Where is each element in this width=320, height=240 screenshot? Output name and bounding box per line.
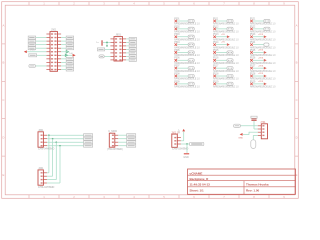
wire +5V vertical [183,131,185,140]
page border frame [2,2,299,200]
J601 pin 7 (right) [123,59,127,61]
J501 pin 6 (right) [58,51,62,53]
global label J302 label 4 [127,144,136,147]
J501 pin 4 (left) [46,44,50,46]
no-connect [175,43,178,46]
global label J302 label 3 [127,141,136,144]
power symbol P529 [264,82,267,85]
J301 pin 3 [43,141,47,143]
J501 pin 5 (left) [46,47,50,49]
J501 pin 5 (right) [58,47,62,49]
wire from J302 pin 3 [118,141,126,143]
wire bus1 vertical [48,135,50,173]
junction at GND drop [186,143,188,145]
no-connect [250,51,253,54]
J601 pin 7 (left) [110,59,114,61]
J501 pin 2 (right) [58,37,62,39]
J501 pin 11 (left) [46,69,50,71]
svg-text:E: E [2,173,4,177]
solder jumper P517 [227,67,233,70]
wire C701 to J701 [253,121,255,129]
global label bus label 3 [84,141,93,144]
solder jumper P521 [264,19,270,22]
svg-text:C: C [296,98,298,102]
wire P529 [253,83,264,85]
wire to J501 left row10 [36,65,47,67]
wire from J501 right [61,65,66,67]
wire P504 [177,44,188,46]
wire P502 [177,28,188,30]
junction bus3 [55,141,57,143]
connector J701 body [261,124,267,139]
J501 pin 2 (left) [46,37,50,39]
J101 pin 2 [177,140,181,142]
svg-text:HARDWARIO/BODULE 1.0: HARDWARIO/BODULE 1.0 [174,22,200,26]
junction at J601 pin3 [106,45,108,47]
J601 pin 1 (right) [123,38,127,40]
global label J601-L6 [99,55,104,58]
J501 pin 3 (left) [46,40,50,42]
svg-text:HARDWARIO/BODULE 1.0: HARDWARIO/BODULE 1.0 [213,22,239,26]
global label bus label 4 [84,144,93,147]
global label J601-R7 [129,58,136,61]
no-connect [213,51,216,54]
no-connect [175,51,178,54]
svg-text:HARDWARIO/BODULE 1.0: HARDWARIO/BODULE 1.0 [174,85,200,89]
J501 pin 7 (right) [58,54,62,56]
global label J601-R2 [129,41,136,44]
global label J501-L4 [28,43,35,46]
no-connect [213,59,216,62]
global label J501-L7 [29,54,37,57]
global label J601-L4 [97,48,104,51]
wire P526 [253,59,264,61]
J401 pin 4 [43,182,47,184]
svg-text:HARDWARIO/BODULE 1.0: HARDWARIO/BODULE 1.0 [213,77,239,81]
power symbol TXD arrow [73,54,76,57]
wire F701 to J701 [252,135,254,139]
J601 pin 6 (left) [110,55,114,57]
wire to J601 pin2 [103,41,110,43]
J501 pin 9 (left) [46,61,50,63]
wire from J601 right [126,38,129,40]
no-connect [213,43,216,46]
J601 pin 4 (right) [123,48,127,50]
J501 pin 10 (right) [58,65,62,67]
global label J501-R10 [66,64,73,67]
wire P527 [253,67,264,69]
J601 pin 1 (left) [110,38,114,40]
wire bus2 horizontal [47,138,84,140]
global label J302 label 1 [127,134,136,137]
svg-text:A: A [2,23,4,27]
wire from J501 right [61,61,66,63]
wire bus2 into J401 [47,175,53,177]
connector J501 body [50,32,58,72]
wire P518 [216,75,227,77]
solder jumper P522 [264,27,270,30]
J301 pin 4 [43,145,47,147]
wire P507 [177,67,188,69]
svg-text:J501: J501 [51,29,57,32]
power symbol GND bar [184,153,189,155]
wire from J501 right [61,69,66,71]
wire P503 [177,36,188,38]
svg-text:B: B [296,61,298,65]
svg-text:J301: J301 [38,129,44,132]
wire bus1 into J401 [47,172,49,174]
power symbol +5V arrow [182,129,185,132]
svg-text:HARDWARIO/BODULE 1.0: HARDWARIO/BODULE 1.0 [213,45,239,49]
svg-text:HARDWARIO/BODULE 1.0: HARDWARIO/BODULE 1.0 [174,77,200,81]
wire to J501 left row7 [37,54,47,56]
svg-text:(HW-04HSMD): (HW-04HSMD) [107,149,123,151]
wire from J501 right [61,40,66,42]
svg-text:HARDWARIO/BODULE 1.0: HARDWARIO/BODULE 1.0 [213,53,239,57]
global label bus label 1 [84,134,93,137]
J501 pin 6 (left) [46,51,50,53]
global label J501-R9 [66,61,73,64]
no-connect [175,67,178,70]
svg-text:C_MOD: C_MOD [108,130,117,133]
svg-text:1u: 1u [96,42,99,44]
wire to J601 pin4 [105,48,111,50]
no-connect [175,59,178,62]
global label J501-R2 [66,36,73,39]
svg-text:HARDWARIO/BODULE 1.0: HARDWARIO/BODULE 1.0 [213,30,239,34]
svg-text:HARDWARIO/BODULE 1.0: HARDWARIO/BODULE 1.0 [213,85,239,89]
wire C701 branch [254,128,258,130]
J302 pin 3 [115,141,119,143]
no-connect [175,28,178,31]
wire P522 [253,28,264,30]
svg-text:VCC: VCC [30,49,35,51]
power symbol P513 [227,35,230,38]
J401 pin 2 [43,175,47,177]
svg-text:CHS-04HSMD: CHS-04HSMD [38,147,54,150]
hierarchical label TXD [65,54,67,56]
J401 pin 3 [43,179,47,181]
global label bus label 2 [84,137,93,140]
junction bus1 [48,134,50,136]
J701 pin 3 [258,131,262,133]
svg-text:J701: J701 [260,121,266,124]
solder jumper P501 [188,19,194,22]
J301 pin 2 [43,138,47,140]
wire P519 [216,83,227,85]
wire P513 [216,36,227,38]
J501 pin 8 (left) [46,58,50,60]
svg-text:CHS-04HSMD: CHS-04HSMD [38,186,54,189]
no-connect [175,75,178,78]
svg-text:HARDWARIO/BODULE 1.0: HARDWARIO/BODULE 1.0 [174,61,200,65]
J601 pin 2 (right) [123,41,127,43]
wire P521 [253,20,264,22]
global label J501-L2 [28,36,35,39]
solder jumper P511 [227,19,233,22]
wire +5V to J101 pin 2 [181,140,184,142]
J501 pin 8 (right) [58,58,62,60]
wire P505 [177,51,188,53]
J601 pin 2 (left) [110,41,114,43]
solder jumper P502 [188,27,194,30]
svg-text:Backplane_R: Backplane_R [190,177,210,181]
J301 pin 1 [43,134,47,136]
solder jumper P516 [227,59,233,62]
resistor R101 body [190,142,204,145]
power symbol P528 [264,75,267,78]
solder jumper P505 [188,51,194,54]
svg-text:+3V3: +3V3 [258,57,264,59]
svg-text:HARDWARIO/BODULE 1.0: HARDWARIO/BODULE 1.0 [174,30,200,34]
wire bus4 horizontal [47,145,84,147]
svg-text:HARDWARIO/BODULE 1.0: HARDWARIO/BODULE 1.0 [250,85,276,89]
no-connect [213,20,216,23]
global label J302 label 2 [127,137,136,140]
svg-text:J601: J601 [115,34,121,37]
wire P517 [216,67,227,69]
J701 pin 1 [258,125,262,127]
wire to J501 left [36,40,47,42]
svg-text:HARDWARIO/BODULE 1.0: HARDWARIO/BODULE 1.0 [213,37,239,41]
global label J601-R4 [129,48,136,51]
svg-text:11:49:33 04-13: 11:49:33 04-13 [190,183,211,187]
global label J501-L10 [29,64,36,67]
connector J401 body [38,170,43,185]
svg-text:E: E [296,173,298,177]
wire from J601 right [126,52,129,54]
J302 pin 4 [115,145,119,147]
J302 pin 1 [115,134,119,136]
global label J501-R11 [66,68,73,71]
connector J302 body [109,133,115,147]
wire P523 [253,36,264,38]
wire P525 [253,51,264,53]
solder jumper P524 [264,43,269,46]
wire from J302 pin 1 [118,134,126,136]
solder jumper P507 [188,67,194,70]
svg-text:+3V3: +3V3 [258,65,264,67]
hierarchical label RXD [66,50,68,53]
wire from J501 right [61,37,66,39]
wire to J501 left [36,37,47,39]
J601 pin 5 (left) [110,52,114,54]
wire P515 [216,51,227,53]
no-connect [213,83,216,86]
wire bus3 horizontal [47,141,84,143]
no-connect [250,43,253,46]
svg-text:HARDWARIO/BODULE 1.0: HARDWARIO/BODULE 1.0 [250,22,276,26]
J501 pin 1 (right) [58,33,62,35]
wire to J501 left [36,47,47,49]
global label VOUT [234,124,241,127]
svg-text:HARDWARIO/BODULE 1.0: HARDWARIO/BODULE 1.0 [213,69,239,73]
global label J501-R3 [66,40,73,43]
svg-text:HARDWARIO/BODULE 1.0: HARDWARIO/BODULE 1.0 [174,53,200,57]
wire to J601 pin6 [104,55,110,57]
J701 pin 2 [258,128,262,130]
svg-text:B: B [2,61,4,65]
no-connect [213,28,216,31]
global label J601-R3 [129,44,136,47]
wire P512 [216,28,227,30]
no-connect [175,83,178,86]
svg-text:+3V3: +3V3 [258,34,264,36]
J501 pin 3 (right) [58,40,62,42]
J401 pin 1 [43,172,47,174]
svg-text:+5V: +5V [179,129,181,133]
global label J601-R6 [129,55,136,58]
power symbol P527 [264,67,267,70]
J701 pin 4 [258,134,262,136]
solder jumper P515 [227,51,233,54]
wire from J601 right [126,55,129,57]
power symbol P526 [264,59,267,62]
no-connect [175,20,178,23]
no-connect [213,67,216,70]
no-connect [250,83,253,86]
wire bus3 into J401 [47,179,56,181]
power symbol P525 [264,51,267,54]
capacitor C701 [251,116,257,120]
connector J101 body [172,134,178,147]
power symbol P514 [227,43,230,46]
wire from J501 right [61,44,66,46]
wire bus1 horizontal [47,134,84,136]
svg-text:Sheet: 1/1: Sheet: 1/1 [190,189,205,193]
power symbol VCC left [24,50,27,53]
global label J601-R1 [129,37,136,40]
no-connect [250,75,253,78]
global label J501-R5 [66,47,73,50]
no-connect [250,59,253,62]
solder jumper P504 [188,43,194,46]
no-connect [213,35,216,38]
wire P501 [177,20,188,22]
power symbol P523 [264,35,267,38]
svg-text:+3V3: +3V3 [258,81,264,83]
wire bus2 vertical [52,139,54,177]
title block [188,169,296,194]
wire bus4 vertical [59,146,61,183]
J601 pin 6 (right) [123,55,127,57]
wire bus3 vertical [55,142,57,179]
wire J101 pin 3 to R101 [181,143,190,145]
wire from J601 right [126,48,129,50]
svg-text:C: C [2,98,4,102]
wire from J601 right [126,45,129,47]
wire P506 [177,59,188,61]
wire from J501 right [61,58,66,60]
svg-text:D: D [296,136,298,140]
J601 pin 3 (right) [123,45,127,47]
no-connect [175,35,178,38]
global label J501-L3 [28,40,35,43]
svg-text:+5V: +5V [221,42,225,44]
no-connect [250,20,253,23]
J601 pin 3 (left) [110,45,114,47]
svg-text:J401: J401 [38,167,44,170]
svg-text:D: D [2,136,4,140]
svg-text:GND: GND [238,138,243,140]
solder jumper P503 [188,35,194,38]
junction bus4 [59,145,61,147]
wire from J601 right [126,41,129,43]
fuse F701 [251,140,256,149]
no-connect [250,28,253,31]
svg-text:+3V3: +3V3 [258,73,264,75]
connector J301 body [38,132,43,147]
J601 pin 4 (left) [110,48,114,50]
wire P528 [253,75,264,77]
wire from J302 pin 4 [118,145,126,147]
no-connect [213,75,216,78]
no-connect [250,35,253,38]
svg-text:HARDWARIO/BODULE 1.0: HARDWARIO/BODULE 1.0 [174,69,200,73]
global label J501-R8 [66,57,73,60]
global label J601-R5 [129,51,136,54]
J501 pin 7 (left) [46,54,50,56]
wire P516 [216,59,227,61]
svg-text:HARDWARIO/BODULE 1.0: HARDWARIO/BODULE 1.0 [213,61,239,65]
wire from J302 pin 2 [118,138,126,140]
J302 pin 2 [115,138,119,140]
global label J501-L5 [28,47,35,50]
wire bus4 into J401 [47,182,60,184]
connector J601 body [114,37,123,61]
junction bus2 [52,138,54,140]
svg-text:Thomas Hruska: Thomas Hruska [246,183,269,187]
svg-text:GND: GND [183,156,189,159]
solder jumper P512 [227,27,233,30]
solder jumper P506 [188,59,194,62]
wire tie rows 2-3 [106,42,108,46]
no-connect [250,67,253,70]
solder jumper P508 [188,74,194,77]
wire to J501 left [36,44,47,46]
svg-text:HARDWARIO/BODULE 1.0: HARDWARIO/BODULE 1.0 [174,45,200,49]
wire TXD from J501 [61,54,72,56]
J501 pin 1 (left) [46,33,50,35]
wire GND to J701 [243,133,249,135]
wire P524 [253,44,264,46]
wire VCC to J501 [27,51,46,53]
svg-text:+5V: +5V [221,34,225,36]
wire RXD from J501 [61,51,66,53]
wire P511 [216,20,227,22]
J501 pin 9 (right) [58,61,62,63]
J101 pin 3 [177,143,181,145]
capacitor C601 [101,40,103,45]
power symbol GND [240,133,243,136]
solder jumper P518 [227,74,233,77]
wire P514 [216,44,227,46]
junction at J601 pin2 [106,42,108,44]
J101 pin 1 [177,137,181,139]
svg-text:uCNAME: uCNAME [190,171,203,175]
wire from J601 right [126,59,129,61]
wire GND vertical [186,144,188,153]
solder jumper P509 [188,82,194,85]
svg-text:CHS-03HSMD: CHS-03HSMD [172,147,188,150]
wire P509 [177,83,188,85]
J501 pin 11 (right) [58,69,62,71]
svg-text:HARDWARIO/BODULE 1.0: HARDWARIO/BODULE 1.0 [250,37,276,41]
J501 pin 4 (right) [58,44,62,46]
J501 pin 10 (left) [46,65,50,67]
J601 pin 5 (right) [123,52,127,54]
wire P508 [177,75,188,77]
